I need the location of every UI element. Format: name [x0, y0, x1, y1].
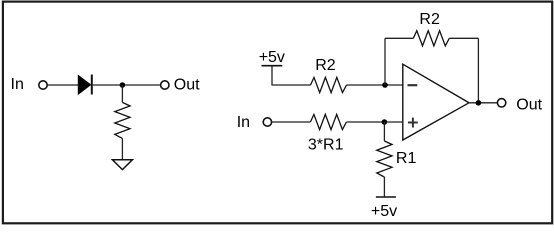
op-amp non-inverting pin marker + — [408, 118, 418, 128]
op-amp inverting pin marker - — [408, 84, 418, 86]
diode D1 — [78, 75, 92, 95]
svg-text:+5v: +5v — [259, 49, 285, 66]
power +5v (top) rail bar — [262, 65, 283, 67]
terminal Out (left) — [161, 81, 169, 89]
resistor R1 — [377, 141, 392, 177]
svg-text:In: In — [11, 76, 24, 93]
resistor R2 (feedback) — [413, 31, 449, 46]
svg-text:R1: R1 — [396, 150, 417, 167]
ground — [112, 160, 132, 170]
svg-text:In: In — [237, 114, 250, 131]
terminal Out (right) — [497, 99, 505, 107]
resistor (left shunt) — [115, 102, 130, 138]
svg-text:+5v: +5v — [371, 203, 397, 220]
resistor R2 (input) — [311, 77, 347, 92]
junction node output — [476, 100, 482, 106]
wire op-amp output to Out terminal (right) — [469, 102, 497, 104]
wire feedback: up from inverting node — [384, 38, 386, 85]
wire feedback: top right segment — [449, 37, 478, 39]
op-amp U1 body — [403, 64, 469, 140]
wire In terminal to diode anode — [47, 84, 78, 86]
svg-text:3*R1: 3*R1 — [308, 136, 344, 153]
svg-text:Out: Out — [516, 96, 542, 113]
junction node non-inverting input — [382, 119, 388, 125]
terminal In (right) — [263, 118, 271, 126]
wire +5v bar down to inverting input line — [272, 67, 311, 86]
wire junction down to shunt resistor — [121, 85, 123, 102]
wire R1 to +5v rail bar (bottom) — [383, 177, 385, 197]
wire In terminal to 3*R1 — [272, 121, 311, 123]
junction node (left circuit) — [120, 82, 126, 88]
junction node inverting input — [382, 82, 388, 88]
wire diode cathode to Out terminal (left) — [93, 84, 161, 86]
wire feedback: top left segment — [385, 37, 413, 39]
wire R2 to op-amp inverting input — [347, 84, 403, 86]
power +5v (bottom) rail bar — [376, 196, 396, 198]
terminal In (left) — [39, 81, 47, 89]
svg-text:R2: R2 — [315, 57, 336, 74]
svg-text:R2: R2 — [419, 11, 440, 28]
svg-text:Out: Out — [174, 77, 200, 94]
wire 3*R1 to op-amp non-inverting input — [346, 121, 402, 123]
wire shunt resistor to ground — [121, 138, 123, 159]
wire feedback: down to output node — [477, 38, 479, 103]
wire non-inverting node down to R1 — [383, 122, 385, 141]
resistor 3*R1 — [310, 114, 346, 129]
